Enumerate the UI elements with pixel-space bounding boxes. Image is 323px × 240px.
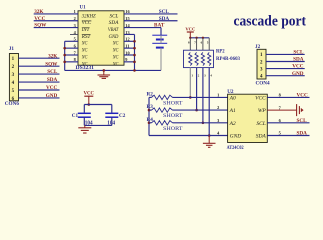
- svg-text:SHORT: SHORT: [163, 113, 183, 119]
- wire U1 NC pins 12-9 tie: [124, 41, 135, 62]
- wire U1 pin16 SCL: [124, 13, 178, 15]
- wire U2 pin6 SCL: [267, 122, 309, 124]
- svg-text:GND: GND: [292, 71, 304, 77]
- RP2 value RP4R-0603: [216, 57, 240, 62]
- wire caps bottom rail: [84, 124, 112, 126]
- connector J2 body: [257, 49, 266, 79]
- junction dots left bus: [148, 109, 151, 124]
- svg-text:VCC: VCC: [255, 95, 266, 101]
- svg-text:SCL: SCL: [256, 121, 265, 127]
- svg-text:VCC: VCC: [185, 26, 195, 31]
- U2 left pin names: [229, 95, 242, 139]
- svg-text:NC: NC: [81, 48, 88, 54]
- net label VCC (pin2): [34, 16, 45, 22]
- svg-text:GND: GND: [109, 34, 119, 40]
- U2 value AT24C02: [227, 146, 244, 151]
- wire caps top rail: [84, 104, 112, 106]
- svg-text:U1: U1: [80, 5, 87, 10]
- RP2 top pin numbers: [188, 41, 209, 45]
- U2 designator: [227, 89, 234, 95]
- svg-text:NC: NC: [112, 61, 119, 67]
- svg-text:SDA: SDA: [297, 131, 308, 137]
- R3 value SHORT: [163, 113, 183, 119]
- net label SCL (J1): [47, 69, 58, 75]
- junction dots U1 pins 12-9: [133, 40, 136, 63]
- R4 value SHORT: [163, 126, 183, 132]
- RP2 resistors: [189, 52, 211, 65]
- net label SCL (U2): [297, 118, 308, 124]
- svg-text:VCC: VCC: [292, 64, 303, 70]
- wire VCC stem RP2: [189, 32, 191, 38]
- power VCC for C1C2: [83, 92, 94, 97]
- net label SDA (U2): [297, 131, 308, 137]
- J1 pin wires: [19, 58, 60, 98]
- net label GND (J1): [46, 93, 58, 99]
- power ground under U1: [98, 70, 111, 78]
- net label SQW: [34, 23, 47, 29]
- U1 designator: [80, 5, 87, 10]
- net label 32K: [34, 9, 43, 15]
- wire U1 pin13 GND down: [124, 34, 135, 70]
- svg-text:SDA: SDA: [293, 57, 304, 63]
- power ground caps: [78, 125, 91, 133]
- C2 value 104: [107, 120, 115, 126]
- svg-text:RP4R-0603: RP4R-0603: [216, 57, 240, 62]
- svg-text:SCL: SCL: [297, 118, 308, 124]
- net label BAT: [154, 23, 165, 29]
- svg-text:A0: A0: [229, 95, 236, 101]
- svg-text:SCL: SCL: [110, 13, 119, 19]
- IC U2 body: [228, 94, 268, 142]
- C2 designator: [119, 113, 126, 119]
- net label 32K (J1): [48, 53, 57, 59]
- net label SQW (J1): [45, 61, 58, 67]
- J1 designator: [9, 46, 15, 52]
- svg-text:32KHZ: 32KHZ: [82, 13, 96, 19]
- net label SDA (U1): [159, 16, 170, 22]
- title cascade port: [234, 13, 307, 29]
- svg-text:SHORT: SHORT: [163, 126, 183, 132]
- RP2 designator: [216, 50, 225, 55]
- svg-text:SDA: SDA: [159, 16, 170, 22]
- resistor R4: [147, 117, 173, 125]
- svg-text:GND: GND: [230, 134, 242, 140]
- net label GND (J2): [292, 71, 304, 77]
- net label SCL (U1): [159, 9, 170, 15]
- svg-text:J2: J2: [255, 44, 261, 50]
- svg-text:32K: 32K: [48, 53, 57, 59]
- battery B1: [152, 35, 167, 70]
- svg-text:SHORT: SHORT: [163, 100, 183, 106]
- R2 value SHORT: [163, 100, 183, 106]
- C1 designator: [72, 113, 79, 119]
- svg-text:C2: C2: [119, 113, 126, 119]
- svg-text:3: 3: [217, 118, 219, 123]
- svg-text:AT24C02: AT24C02: [227, 146, 244, 151]
- svg-text:CON6: CON6: [5, 101, 20, 107]
- svg-text:CON4: CON4: [256, 80, 271, 86]
- svg-text:U2: U2: [227, 89, 234, 95]
- wire VCC stem caps: [88, 96, 90, 104]
- J2 pin wires: [266, 54, 305, 75]
- U1 value DS3231: [76, 65, 95, 71]
- U1 pin4 stub: [70, 33, 78, 35]
- svg-text:C1: C1: [72, 113, 79, 119]
- svg-text:SCL: SCL: [47, 69, 58, 75]
- svg-text:NC: NC: [112, 54, 119, 60]
- power ground at U2 GND: [203, 136, 216, 148]
- net label VCC (J1): [46, 85, 57, 91]
- svg-text:GND: GND: [46, 93, 58, 99]
- junction dot rail-right: [133, 69, 136, 72]
- svg-text:VBAT: VBAT: [108, 27, 119, 33]
- junction dots RP2 outputs: [189, 96, 211, 137]
- J1 pin numbers: [12, 57, 15, 102]
- junction dots RP2 bus: [189, 37, 204, 39]
- wire VCC to U1 pin2: [34, 20, 78, 22]
- power bar symbol at WP: [267, 104, 303, 116]
- net label SCL (J2): [293, 50, 304, 56]
- svg-text:RP2: RP2: [216, 50, 225, 55]
- C1 value 104: [85, 120, 93, 126]
- svg-text:NC: NC: [81, 41, 88, 47]
- wire U2 pin5 SDA: [267, 135, 309, 137]
- wire RP2 top bus: [190, 37, 209, 39]
- connector J1 body: [9, 54, 18, 101]
- J2 designator: [255, 44, 261, 50]
- junction dots U1 pins 6,7,8: [63, 47, 66, 63]
- wires RP2 outputs down: [190, 68, 209, 136]
- resistor R2: [147, 92, 173, 100]
- RP2 top pin stubs: [190, 38, 209, 50]
- svg-text:NC: NC: [81, 54, 88, 60]
- J2 pin numbers: [260, 53, 263, 79]
- wire GND row: [149, 135, 228, 137]
- wire A-select left bus: [148, 97, 150, 135]
- wire gnd rail under U1: [65, 69, 161, 71]
- wire U2 pin8 VCC: [267, 96, 309, 98]
- U2 right pin names: [255, 95, 266, 139]
- wire A0 row: [173, 96, 228, 98]
- svg-text:A1: A1: [229, 108, 236, 114]
- wire SQW to U1 pin3: [34, 27, 78, 29]
- svg-text:A2: A2: [229, 121, 236, 127]
- net label VCC (U2): [297, 93, 308, 99]
- U1 right pin names: [108, 13, 119, 67]
- wire U1 NC pins 5-8 to gnd rail: [65, 41, 78, 70]
- U2 pin numbers: [217, 93, 281, 136]
- svg-text:SDA: SDA: [256, 134, 267, 140]
- power VCC for RP2: [185, 26, 195, 32]
- wire 32K to U1 pin1: [34, 13, 78, 15]
- wire U1 pin15 SDA: [124, 20, 178, 22]
- svg-text:cascade port: cascade port: [234, 13, 307, 29]
- RP2 body: [184, 50, 214, 67]
- svg-text:SDA: SDA: [109, 20, 119, 26]
- svg-text:NC: NC: [112, 41, 119, 47]
- net label VCC (J2): [292, 64, 303, 70]
- svg-text:NC: NC: [81, 61, 88, 67]
- svg-text:1: 1: [217, 93, 219, 98]
- svg-text:J1: J1: [9, 46, 15, 52]
- svg-text:WP: WP: [258, 108, 267, 114]
- wire U1 pin14 VBAT to battery: [124, 28, 161, 35]
- svg-text:NC: NC: [112, 48, 119, 54]
- U1 left pin names: [81, 13, 96, 67]
- svg-text:SDA: SDA: [47, 77, 58, 83]
- wire A1 row: [173, 109, 228, 111]
- svg-text:SQW: SQW: [45, 61, 58, 67]
- wire A2 row: [173, 122, 228, 124]
- resistor R3: [147, 104, 173, 112]
- net label SDA (J1): [47, 77, 58, 83]
- J1 value CON6: [5, 101, 20, 107]
- junction dot caps top: [88, 103, 91, 106]
- U1 pin numbers: [74, 9, 131, 62]
- svg-text:SCL: SCL: [293, 50, 304, 56]
- net label SDA (J2): [293, 57, 304, 63]
- svg-text:SCL: SCL: [159, 9, 170, 15]
- J2 value CON4: [256, 80, 271, 86]
- svg-text:VCC: VCC: [297, 93, 308, 99]
- junction dot rail-ground: [103, 69, 106, 72]
- capacitor C2: [105, 105, 118, 126]
- IC U1 body: [78, 11, 124, 65]
- svg-text:VCC: VCC: [46, 85, 57, 91]
- RP2 bottom pin numbers: [192, 74, 213, 78]
- capacitor C1: [78, 105, 91, 126]
- svg-text:2: 2: [217, 105, 219, 110]
